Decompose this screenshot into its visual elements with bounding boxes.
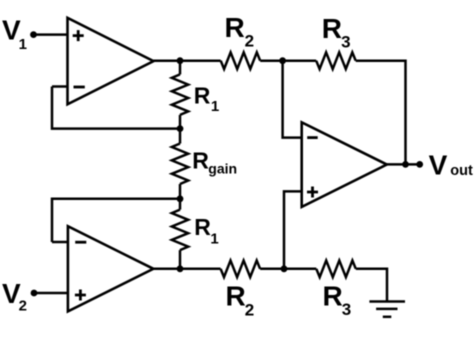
wire R3 to U3 output node [356, 61, 406, 165]
wire R2 to node E [260, 59, 282, 62]
wire V1 to U1 + input [34, 33, 68, 36]
wire U2 output to node D [153, 268, 181, 271]
wire U3 + input from node F [284, 191, 302, 268]
wire node E to U3 - input [283, 61, 302, 138]
node Vout terminal [416, 161, 423, 168]
op-amp U2 [68, 226, 153, 311]
label V1 [2, 15, 27, 54]
wire U1 feedback to node B [52, 87, 180, 129]
resistor R2 (top) [221, 52, 261, 69]
node F (R2/R3 junction bottom) [281, 265, 288, 272]
svg-text:R: R [323, 281, 343, 312]
op-amp U3 [302, 122, 387, 207]
wire Rgain to node C [179, 184, 182, 199]
node C [177, 195, 184, 202]
svg-text:R: R [194, 82, 211, 108]
wire U1 - input [52, 85, 68, 88]
svg-text:2: 2 [19, 297, 27, 314]
ground [369, 302, 405, 317]
svg-text:2: 2 [245, 31, 254, 50]
op-amp U1 [68, 18, 154, 104]
svg-text:3: 3 [341, 32, 350, 51]
svg-text:out: out [450, 163, 473, 179]
node A (U1 output) [177, 57, 184, 64]
resistor R3 (top) [316, 52, 356, 69]
wire node F to R3 bottom [284, 268, 316, 271]
label R2 (top) [225, 12, 255, 50]
svg-text:V: V [429, 149, 448, 180]
node V2 terminal [31, 290, 38, 297]
wire R2 bottom to node F [260, 268, 284, 271]
svg-text:gain: gain [208, 160, 237, 176]
label R1 (bottom) [194, 214, 218, 247]
wire node A to R2 [180, 59, 221, 62]
resistor R3 (bottom) [316, 261, 356, 278]
wire node E to R3 [283, 59, 317, 62]
wire node C to R1 bottom [179, 199, 182, 210]
svg-text:3: 3 [342, 300, 351, 319]
svg-text:R: R [322, 13, 342, 44]
node V1 terminal [30, 31, 37, 38]
svg-text:R: R [194, 214, 211, 240]
wire node D to R2 bottom [180, 268, 221, 271]
node D (U2 output) [177, 265, 184, 272]
resistor R2 (bottom) [221, 261, 261, 278]
wire node A to R1 top [179, 61, 182, 75]
svg-text:R: R [225, 12, 245, 43]
wire R1 bottom to node D [179, 250, 182, 269]
label R2 (bottom) [226, 281, 255, 320]
svg-text:1: 1 [19, 36, 27, 53]
node U3 output / feedback junction [402, 161, 409, 168]
wire R1 to node B [179, 115, 182, 129]
label R3 (top) [322, 13, 351, 51]
wire U3 output to Vout [387, 163, 420, 166]
label Vout [429, 149, 473, 180]
label R3 (bottom) [323, 281, 352, 319]
svg-text:2: 2 [245, 300, 254, 319]
svg-text:R: R [226, 281, 246, 312]
resistor Rgain [172, 144, 188, 185]
wire U1 output to node A [154, 59, 182, 62]
label R1 (top) [194, 82, 219, 115]
svg-text:1: 1 [211, 98, 219, 115]
node E (R2/R3 junction) [279, 57, 286, 64]
svg-text:1: 1 [210, 231, 218, 248]
resistor R1 (bottom) [172, 210, 188, 251]
wire U2 - input [52, 241, 68, 244]
node B [177, 125, 184, 132]
label V2 [2, 278, 27, 314]
resistor R1 (top) [172, 74, 188, 115]
svg-text:R: R [192, 148, 209, 174]
wire U2 feedback to node C [52, 199, 180, 242]
wire V2 to U2 + input [34, 292, 68, 295]
label Rgain [192, 148, 237, 177]
wire node B to Rgain [179, 129, 182, 144]
wire R3 bottom to ground [356, 269, 387, 302]
